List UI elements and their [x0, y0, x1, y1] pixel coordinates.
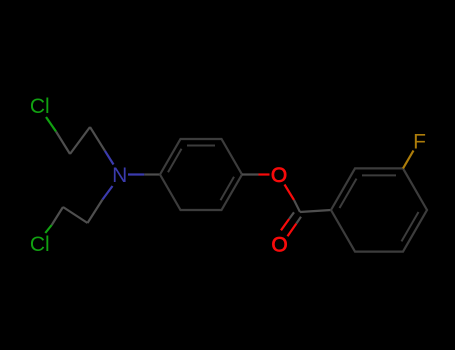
wire C1b-C2b: [63, 207, 88, 223]
wire Cco-ring2: [300, 210, 331, 212]
wire Cl1-C1a green half: [46, 117, 56, 132]
wire O1-Cco carbon half: [294, 200, 300, 212]
svg-text:N: N: [112, 164, 127, 187]
benzene ring 1 inner double bonds: [187, 145, 215, 147]
wire C-F gold: [403, 151, 414, 169]
benzene ring 1 outline: [160, 139, 242, 210]
wire N-ring blue half: [128, 173, 144, 175]
svg-text:O: O: [271, 234, 287, 257]
carbonyl C=O double bond line 2: [296, 217, 301, 224]
wire N-ring carbon half: [144, 173, 160, 175]
svg-text:Cl: Cl: [30, 95, 50, 118]
wire C2a-N blue half: [105, 151, 114, 165]
wire Cl2-C1b carbon half: [52, 207, 63, 225]
carbonyl C=O double bond line 1: [289, 212, 294, 219]
wire C2b-N blue half: [103, 186, 113, 200]
svg-text:O: O: [271, 164, 287, 187]
benzene ring 2 outline: [331, 168, 427, 251]
svg-text:F: F: [413, 131, 426, 154]
wire C2a-N carbon half: [90, 127, 105, 151]
wire O1-Cco red half: [285, 185, 295, 201]
svg-text:Cl: Cl: [30, 233, 50, 256]
wire ring1-O1 red half: [259, 173, 270, 175]
wire ring1-O1 carbon half: [242, 173, 259, 175]
benzene ring 2 inner double bonds: [362, 174, 396, 176]
wire Cl2-C1b green half: [45, 225, 51, 233]
wire C2b-N carbon half: [88, 200, 103, 224]
wire Cl1-C1a carbon half: [56, 132, 70, 155]
wire C1a-C2a: [70, 127, 90, 154]
